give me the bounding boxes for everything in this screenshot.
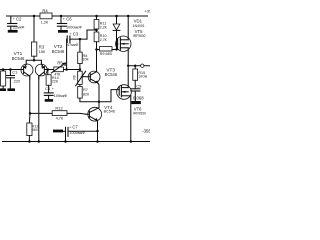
svg-text:C4: C4 [45, 86, 51, 91]
capacitor C6 [57, 16, 66, 30]
svg-text:+: + [63, 17, 65, 21]
wire VT6 source to rail [130, 96, 132, 142]
capacitor C3 [67, 36, 87, 43]
svg-text:15К: 15К [39, 50, 46, 54]
node rail-VT6 [130, 140, 133, 143]
svg-text:IRF9530: IRF9530 [133, 34, 146, 38]
capacitor C9 [131, 89, 140, 101]
ground (C6) [58, 30, 68, 33]
node rail-R3 [33, 15, 36, 18]
node driver junction [98, 101, 101, 104]
svg-text:0,068: 0,068 [133, 95, 144, 100]
wire output [128, 65, 150, 67]
node fb-R14 [47, 68, 50, 71]
wire driver node to VT6 gate [99, 90, 119, 102]
wire VT3 collector up [96, 50, 98, 72]
wire R3 bottom to emitters [33, 56, 35, 60]
capacitor C2 [8, 16, 17, 30]
svg-text:BC546: BC546 [52, 49, 65, 54]
node rail-VT2 [38, 140, 41, 143]
label R4 [41, 9, 49, 25]
resistor R11 [94, 16, 99, 32]
wire bottom negative rail [3, 141, 151, 143]
svg-text:10К: 10К [83, 58, 90, 62]
label R5 [54, 61, 63, 77]
svg-text:2,7К: 2,7К [100, 38, 108, 42]
node R11-R10-C3 [95, 29, 98, 32]
node output-R15 [134, 64, 137, 67]
wire R12 to VT4 base [67, 112, 86, 115]
label C9 [133, 84, 144, 101]
wire VT5 drain to output [127, 48, 129, 66]
label R6 [72, 75, 76, 79]
resistor R4 [40, 13, 52, 19]
label C6 [63, 17, 82, 30]
wire VT2 base to feedback node [44, 69, 47, 71]
node input-C1 [9, 68, 12, 71]
label +35V [144, 8, 154, 13]
wire VT2 collector to bottom rail [38, 76, 40, 141]
svg-text:4,7К: 4,7К [56, 117, 64, 121]
output terminal circle [141, 64, 144, 67]
wire C3 to R11/R10 node [87, 30, 97, 39]
wire gate bus [97, 49, 100, 51]
label R7 [83, 88, 89, 96]
wire node to R12 [30, 112, 52, 114]
ground (R1) [0, 88, 6, 91]
label C1 [12, 70, 20, 84]
transistor VT2 [35, 64, 47, 79]
svg-text:+: + [52, 87, 54, 91]
resistor R15 [133, 66, 138, 89]
wire fb node up to C3 [66, 39, 68, 69]
label C3 [67, 31, 79, 47]
resistor R10 [94, 32, 99, 50]
wire R3 top [33, 16, 35, 42]
label VT2 [52, 44, 65, 54]
ground (C7) [53, 130, 63, 133]
ground (C9) [131, 101, 141, 104]
node rail-VT5 [127, 15, 130, 18]
capacitor C7 [63, 127, 98, 141]
svg-text:560: 560 [32, 128, 38, 132]
node VT4-C7 [96, 130, 99, 133]
svg-text:10Ом: 10Ом [138, 75, 147, 79]
label C2 [13, 17, 25, 30]
node rail-R11 [95, 15, 98, 18]
node tail [33, 59, 36, 62]
label VT4 [104, 105, 115, 114]
svg-text:22К: 22К [52, 79, 59, 83]
wire fb node to R8 bottom [67, 69, 80, 71]
label R9 [100, 52, 112, 56]
svg-text:1000мкФ: 1000мкФ [66, 26, 82, 30]
svg-text:R9 680: R9 680 [100, 52, 112, 56]
label VT3 [105, 67, 118, 77]
svg-text:+: + [70, 32, 72, 36]
svg-text:47мкФ: 47мкФ [67, 43, 78, 47]
node R10-R9-VT3 [95, 48, 98, 51]
transistor VT1 [21, 64, 33, 79]
ground (C4) [45, 99, 53, 102]
node rail-C6 [60, 15, 63, 18]
svg-text:1,2К: 1,2К [41, 21, 49, 25]
trimmer R5 [48, 63, 67, 73]
svg-text:BC546: BC546 [12, 56, 25, 61]
resistor R7 [78, 87, 99, 102]
svg-text:C1: C1 [12, 70, 18, 75]
label C4 [45, 86, 67, 98]
ground (C1) [7, 88, 15, 91]
svg-text:R3: R3 [39, 44, 45, 49]
svg-text:+: + [13, 17, 15, 21]
node rail-VD1 [115, 15, 118, 18]
label R15 [138, 71, 147, 79]
svg-text:IRF9530: IRF9530 [133, 111, 146, 115]
svg-text:22мкФ: 22мкФ [13, 26, 24, 30]
wire VT1 collector down [29, 76, 31, 113]
node rail-C7 [64, 140, 67, 143]
wire emitter bus [26, 60, 41, 64]
label VT1 [12, 51, 25, 61]
svg-text:820: 820 [83, 93, 89, 97]
label R12 [55, 105, 63, 120]
label VD1 [133, 19, 145, 29]
resistor R1 [1, 70, 6, 89]
label R3 [39, 44, 46, 54]
resistor R14 [46, 70, 51, 93]
wire VT5 source to rail [127, 16, 129, 40]
svg-text:220: 220 [14, 80, 20, 84]
svg-text:C2: C2 [16, 17, 22, 22]
svg-text:2,2К: 2,2К [100, 25, 108, 29]
label R14 [52, 76, 59, 84]
svg-text:-35В: -35В [142, 128, 150, 133]
svg-text:R12: R12 [55, 105, 63, 110]
transistor VT6 [117, 85, 132, 100]
svg-text:1000мкФ: 1000мкФ [69, 131, 85, 135]
capacitor C4 [44, 93, 53, 99]
node input-R1 [2, 68, 5, 71]
node VD1-gate [115, 48, 117, 50]
node R8-bias [79, 68, 82, 71]
resistor R8 [78, 39, 83, 69]
wire input to VT1 base [0, 69, 24, 71]
trimmer R6 bias [76, 70, 91, 87]
resistor R9 [100, 47, 113, 51]
node rail-R13 [28, 140, 31, 143]
svg-text:BC546: BC546 [104, 110, 115, 114]
wire R9 to VT5 gate [112, 44, 118, 50]
svg-text:+: + [69, 125, 71, 129]
wire VT4 emitter down [97, 121, 99, 142]
label R11 [100, 22, 108, 30]
svg-text:R7: R7 [83, 88, 88, 92]
diode VD1 [113, 16, 120, 50]
svg-text:R4: R4 [42, 9, 48, 14]
node R12-R13 [29, 112, 32, 115]
label VT6 [133, 107, 146, 116]
capacitor C1 [6, 70, 15, 89]
svg-text:VD1: VD1 [134, 19, 143, 24]
wire VT3 emitter down [98, 83, 99, 102]
transistor VT4 [86, 102, 102, 121]
ground (C2) [8, 30, 18, 33]
resistor R3 [31, 42, 36, 56]
svg-text:R6: R6 [72, 75, 76, 79]
svg-text:100мкФ: 100мкФ [54, 94, 68, 98]
svg-text:BC546: BC546 [105, 72, 118, 77]
svg-text:C6: C6 [66, 17, 72, 22]
resistor R13 [27, 113, 32, 141]
transistor VT5 [116, 36, 131, 51]
label R13 [32, 125, 39, 132]
svg-text:R5: R5 [57, 61, 63, 66]
label R8 [83, 54, 90, 62]
label VT5 [133, 29, 146, 38]
resistor R12 [52, 111, 67, 116]
wire VT6 drain to output [127, 66, 129, 88]
wire top positive rail [7, 15, 148, 17]
node fb-C3 [65, 68, 68, 71]
transistor VT3 [88, 71, 100, 83]
svg-text:1N4001: 1N4001 [133, 24, 145, 28]
node C3-R8 [79, 38, 82, 41]
svg-text:+35В: +35В [144, 8, 150, 13]
svg-text:C7: C7 [72, 125, 78, 130]
svg-text:C3: C3 [73, 31, 79, 36]
label C7 [69, 125, 85, 135]
node rail-VT4 [96, 140, 99, 143]
label -35V [142, 128, 151, 133]
label R10 [100, 34, 108, 42]
svg-text:C9: C9 [136, 84, 142, 89]
